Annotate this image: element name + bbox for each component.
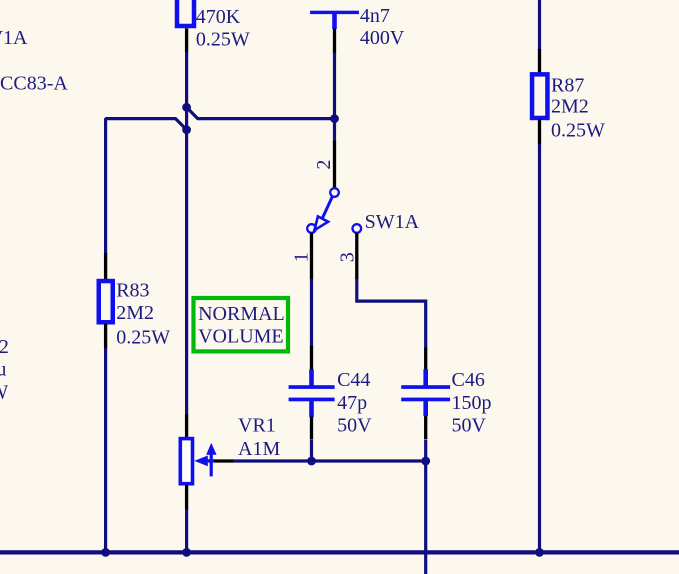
svg-text:2: 2: [0, 336, 9, 358]
pin: SW1A contact 2 pin (black): [333, 141, 336, 189]
wire: wiper to C44/C46 node: [233, 459, 426, 462]
wire: C44 to wiper node: [310, 440, 313, 461]
pin: VR1 wiper pin (black): [214, 459, 233, 462]
svg-text:C44: C44: [337, 369, 370, 391]
capacitor C44 top plate: [289, 385, 335, 389]
wire: C46 down through bus to edge: [424, 440, 427, 574]
capacitor 4n7 lead stub: [332, 14, 337, 30]
pin: R87 pin 2 (bottom, black): [538, 120, 541, 145]
switch SW1A blade: [323, 197, 333, 218]
junction dot bus right (539.5,552.4): [535, 548, 544, 557]
pin: R87 pin 1 (top, black): [538, 49, 541, 73]
svg-text:2M2: 2M2: [116, 302, 154, 324]
svg-text:A1M: A1M: [238, 438, 280, 460]
svg-text:R83: R83: [116, 279, 149, 301]
wire: VR1 bottom to bus: [185, 509, 188, 551]
potentiometer VR1 up-arrow head: [206, 443, 216, 455]
svg-text:150p: 150p: [452, 392, 492, 414]
junction dot node A upper (186.6,107.3): [182, 103, 191, 112]
resistor R83 body: [99, 281, 113, 322]
capacitor C46 top lead stub: [423, 369, 428, 385]
svg-text:R87: R87: [551, 74, 584, 96]
svg-text:2M2: 2M2: [551, 95, 589, 117]
svg-text:2: 2: [313, 160, 335, 170]
resistor R 470K body (top, clipped): [177, 0, 194, 26]
svg-text:470K: 470K: [196, 6, 241, 28]
svg-text:0.25W: 0.25W: [551, 119, 605, 141]
wire: contact 1 down to C44: [310, 279, 313, 347]
switch SW1A blade arrowhead (open): [314, 216, 328, 230]
capacitor C46 top plate: [401, 385, 450, 389]
svg-text:u: u: [0, 358, 6, 380]
pin: R83 bottom pin (black): [104, 324, 107, 349]
junction dot bus centre (186.6,552.4): [182, 548, 191, 557]
svg-text:4n7: 4n7: [360, 5, 390, 27]
potentiometer VR1 wiper stem: [206, 459, 215, 462]
pin: SW1A contact 1 pin (black): [310, 233, 313, 280]
pin: C44 bottom pin (black): [310, 417, 313, 440]
svg-text:SW1A: SW1A: [365, 211, 420, 233]
svg-text:VR1: VR1: [238, 415, 276, 437]
wire: right vertical upper (to R87): [538, 0, 541, 51]
pin: 4n7 bottom pin (black): [333, 29, 336, 54]
switch SW1A contact 3 circle: [353, 224, 362, 233]
capacitor C44 top lead stub: [309, 369, 314, 385]
junction dot wiper/C46 (425.7,461): [421, 457, 430, 466]
svg-text:VOLUME: VOLUME: [198, 325, 284, 347]
wire: 470K to node A: [185, 52, 188, 415]
wire: R87 bottom to bus: [538, 144, 541, 551]
resistor R87 body: [532, 74, 547, 118]
svg-text:47p: 47p: [337, 392, 367, 414]
svg-text:0.25W: 0.25W: [196, 28, 250, 50]
svg-text:C46: C46: [452, 369, 485, 391]
svg-text:50V: 50V: [337, 415, 372, 437]
wire: R83 to bus: [104, 348, 107, 551]
svg-text:W: W: [0, 381, 8, 403]
svg-text:ECC83-A: ECC83-A: [0, 73, 68, 95]
wire: contact 3 to C46 (L path): [357, 279, 426, 348]
pin: 470K bottom pin (black): [185, 28, 188, 52]
svg-text:0.25W: 0.25W: [116, 326, 170, 348]
pin: VR1 bottom pin (black): [185, 485, 188, 510]
annotation box NORMAL VOLUME (green): [194, 298, 289, 351]
wire: 4n7 down to node B: [333, 53, 336, 142]
potentiometer VR1 body: [180, 439, 192, 484]
potentiometer VR1 wiper arrowhead (left): [194, 456, 208, 467]
junction dot node A lower (186.6,129.8): [182, 125, 191, 134]
wire: horizontal node A to node B: [198, 117, 335, 120]
svg-text:400V: 400V: [360, 27, 405, 49]
svg-text:V1A: V1A: [0, 27, 28, 49]
pin: SW1A contact 3 pin (black): [355, 233, 358, 280]
junction dot wiper/C44 (311.5,461): [307, 457, 316, 466]
svg-text:NORMAL: NORMAL: [198, 303, 285, 325]
capacitor C46 bottom plate: [401, 398, 450, 402]
potentiometer VR1 up-arrow shaft: [210, 453, 213, 476]
switch SW1A contact 1 circle: [307, 224, 316, 233]
capacitor C44 bottom plate: [289, 398, 335, 402]
svg-text:50V: 50V: [452, 415, 487, 437]
pin: C44 top pin (black): [310, 346, 313, 370]
pin: R83 top pin (black): [104, 253, 107, 280]
junction dot node B (334.5,118.6): [330, 114, 339, 123]
switch SW1A contact 2 circle: [330, 188, 339, 197]
pin: VR1 top pin (black): [185, 414, 188, 437]
capacitor 4n7 bottom plate (top clipped): [310, 11, 359, 14]
pin: C46 bottom pin (black): [424, 416, 427, 440]
wire: jog diagonal from upper node dot: [187, 107, 198, 118]
capacitor C46 bottom lead stub: [423, 401, 428, 416]
svg-text:1: 1: [290, 252, 312, 262]
wire: jog diagonal left to lower node dot: [176, 119, 187, 130]
junction dot bus left (105.6,552.4): [101, 548, 110, 557]
capacitor C44 bottom lead stub: [309, 401, 314, 417]
wire: bottom bus (net): [0, 550, 679, 554]
wire: left horizontal from corner: [106, 119, 176, 254]
pin: C46 top pin (black): [424, 348, 427, 370]
